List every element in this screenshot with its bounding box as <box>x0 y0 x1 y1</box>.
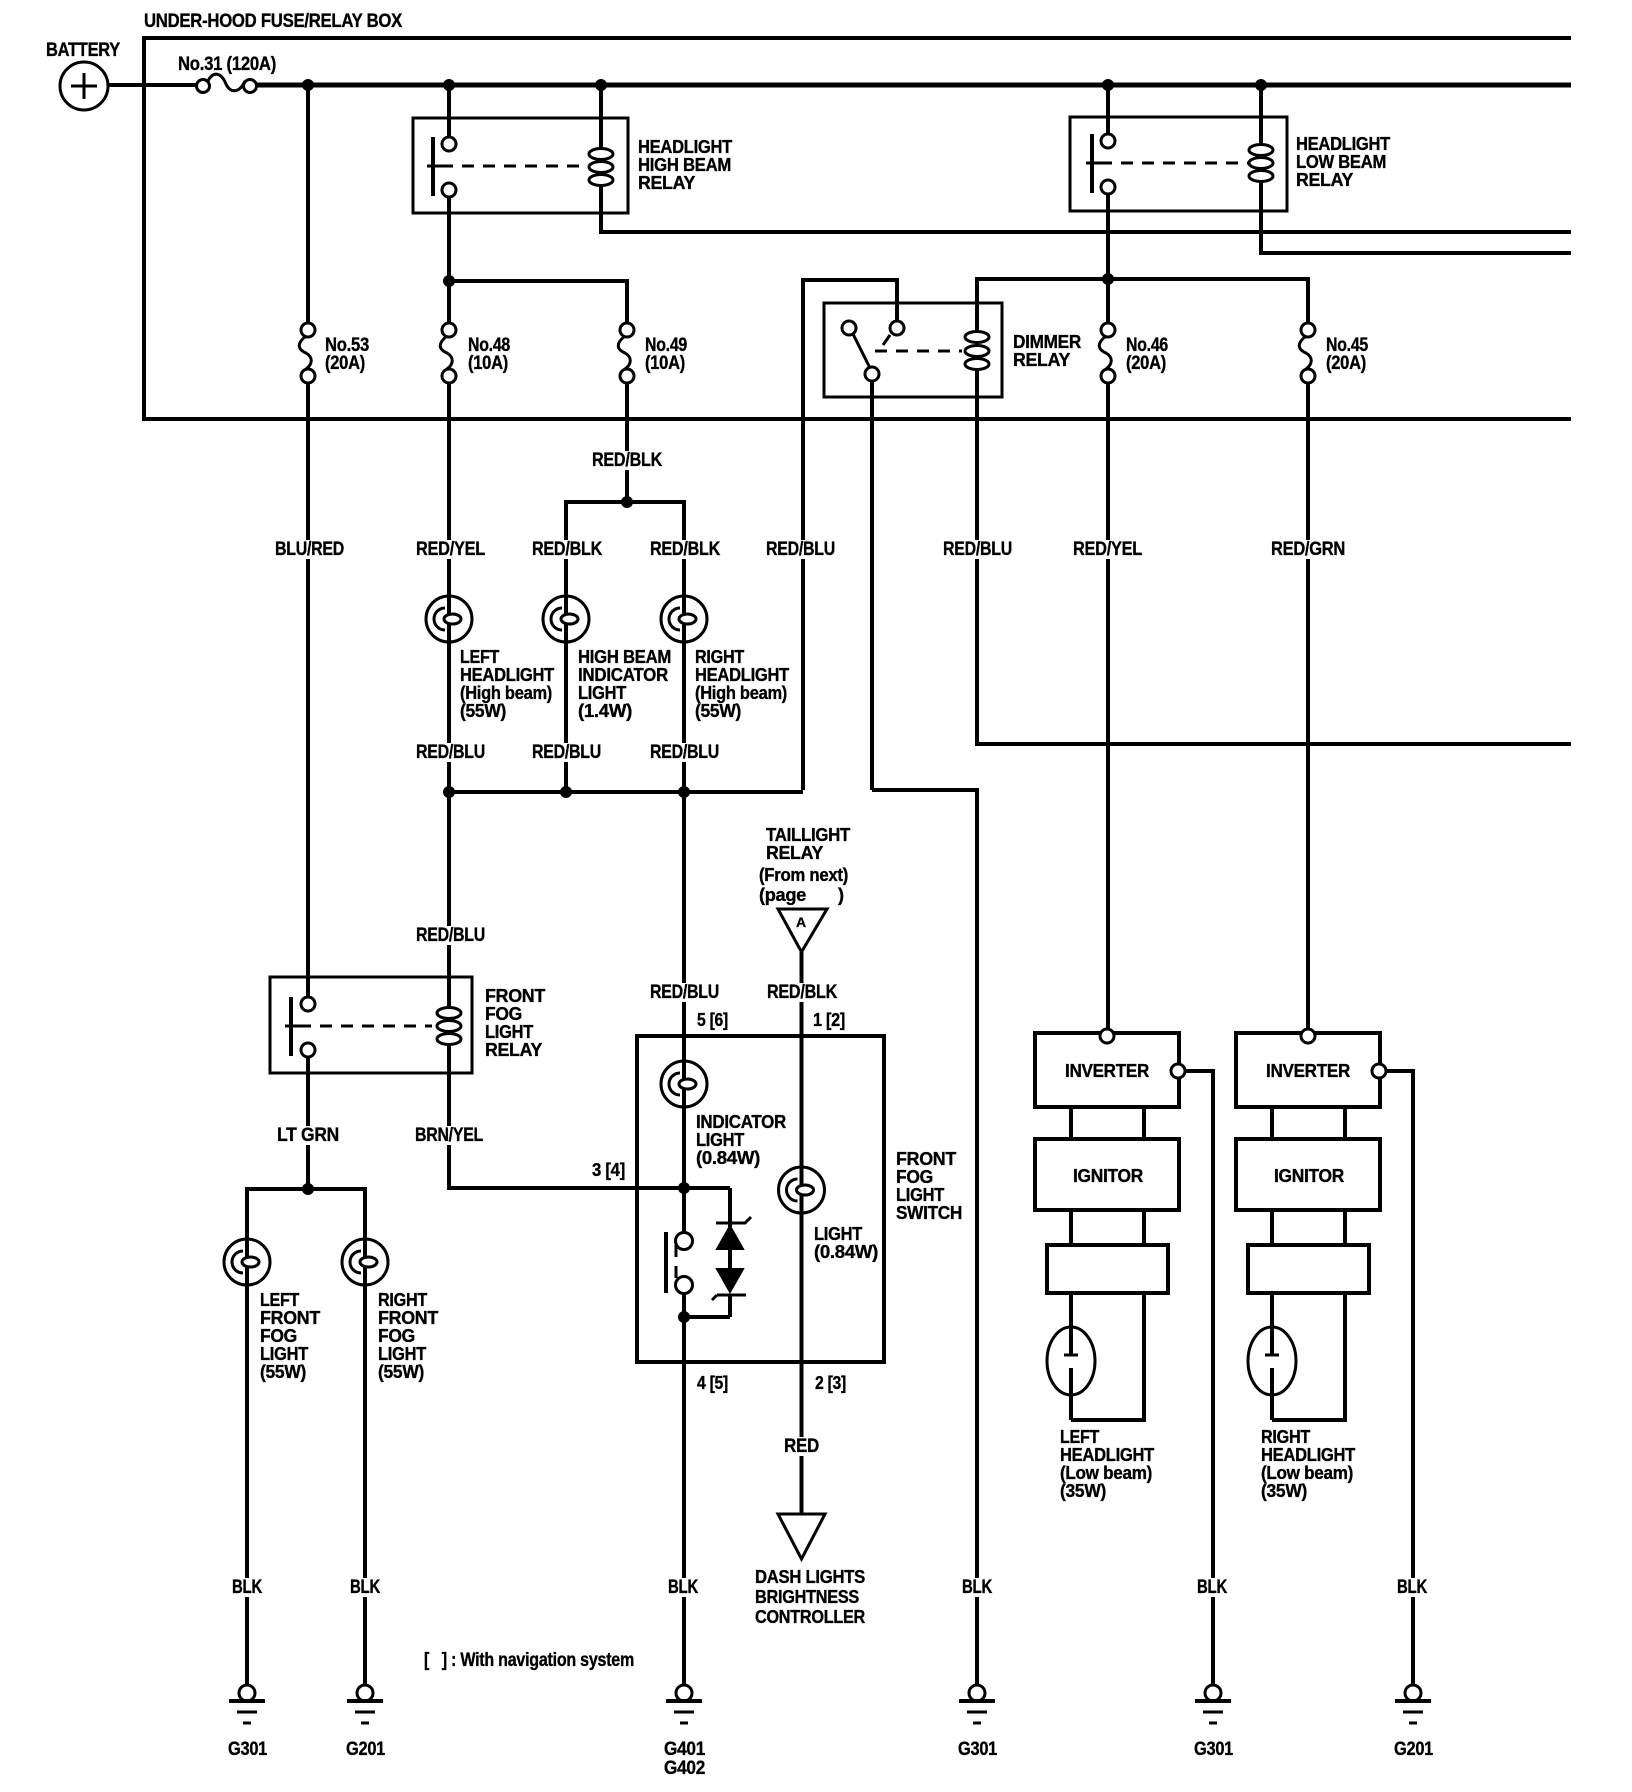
junction indicator to switch node <box>678 1182 690 1194</box>
low beam relay switch bar <box>1090 134 1094 193</box>
svg-text:FRONT: FRONT <box>260 1308 320 1328</box>
lamp right headlight low beam <box>1248 1327 1296 1420</box>
label HEADLIGHT LOW BEAM RELAY <box>1296 134 1390 190</box>
diode D1 (pointing up) <box>717 1226 743 1249</box>
svg-text:DIMMER: DIMMER <box>1013 332 1081 352</box>
svg-text:HEADLIGHT: HEADLIGHT <box>638 137 732 157</box>
label DASH LIGHTS BRIGHTNESS CONTROLLER <box>755 1567 865 1627</box>
wire triangle A to fog switch pin 1 <box>800 952 804 1036</box>
socket block left headlight <box>1047 1245 1168 1293</box>
svg-text:FOG: FOG <box>896 1167 933 1187</box>
label BRN/YEL at 415,1141 <box>413 1126 486 1145</box>
svg-text:RED/BLU: RED/BLU <box>416 925 485 946</box>
svg-text:(10A): (10A) <box>645 353 685 374</box>
svg-text:G402: G402 <box>664 1758 705 1779</box>
fuse No.53 (20A) <box>299 323 369 383</box>
svg-text:G301: G301 <box>1194 1739 1234 1760</box>
svg-text:FOG: FOG <box>378 1326 415 1346</box>
wire fog relay coil return <box>449 1044 730 1188</box>
front fog light switch box <box>637 1036 884 1362</box>
label HIGH BEAM INDICATOR LIGHT (1.4W) <box>578 647 671 721</box>
ground G201 right fog <box>346 1685 386 1760</box>
svg-text:): ) <box>838 885 844 905</box>
svg-text:4 [5]: 4 [5] <box>697 1373 728 1393</box>
wire dimmer common down <box>870 381 874 790</box>
svg-text:RED/BLU: RED/BLU <box>650 982 719 1003</box>
svg-text:(55W): (55W) <box>695 701 741 721</box>
wire ignitor U4 to socket right <box>1343 1210 1347 1245</box>
svg-text:HIGH BEAM: HIGH BEAM <box>638 155 731 175</box>
wire inverter U3 to ignitor left <box>1270 1107 1274 1139</box>
svg-text:(1.4W): (1.4W) <box>578 701 632 721</box>
svg-text:HIGH BEAM: HIGH BEAM <box>578 647 671 667</box>
svg-text:FRONT: FRONT <box>485 986 545 1006</box>
svg-text:(0.84W): (0.84W) <box>814 1242 878 1262</box>
label RED/YEL at 1073,555 <box>1071 540 1145 559</box>
svg-text:LIGHT: LIGHT <box>696 1130 744 1150</box>
svg-text:(35W): (35W) <box>1060 1481 1106 1501</box>
wire ignitor U2 to socket right <box>1142 1210 1146 1245</box>
ground G301 dimmer <box>958 1685 998 1760</box>
wire fuse No.48 to left headlight bulb <box>447 383 451 613</box>
svg-text:RED: RED <box>784 1436 819 1457</box>
svg-text:LEFT: LEFT <box>1060 1427 1099 1447</box>
junction return bus left <box>443 786 455 798</box>
junction fog light split <box>302 1183 314 1195</box>
dimmer relay contact pin A <box>842 321 856 335</box>
svg-text:(55W): (55W) <box>260 1362 306 1382</box>
dimmer relay contact pin B <box>890 321 904 335</box>
svg-text:LIGHT: LIGHT <box>378 1344 426 1364</box>
inverter U3 box <box>1236 1033 1380 1107</box>
svg-text:RIGHT: RIGHT <box>378 1290 427 1310</box>
connector triangle A from next page <box>778 909 827 952</box>
wire inverter U3 to ignitor right <box>1343 1107 1347 1139</box>
svg-text:(Low beam): (Low beam) <box>1261 1463 1353 1483</box>
svg-text:(55W): (55W) <box>378 1362 424 1382</box>
dimmer relay switch blade <box>853 334 870 368</box>
svg-text:BRN/YEL: BRN/YEL <box>415 1125 484 1146</box>
svg-text:LEFT: LEFT <box>460 647 499 667</box>
diode D2 (pointing down) <box>717 1269 743 1292</box>
junction switch output node <box>678 1311 690 1323</box>
junction on bus at high beam relay switch <box>443 79 455 91</box>
low beam relay hinge tick <box>1086 162 1101 165</box>
wire branch to fuse No.49 <box>449 281 627 323</box>
wire return bus to fog switch pin 5 <box>682 792 686 1065</box>
svg-text:HEADLIGHT: HEADLIGHT <box>1060 1445 1154 1465</box>
bulb right headlight high beam <box>661 596 707 642</box>
label LEFT HEADLIGHT (High beam) (55W) <box>460 647 554 721</box>
main power bus wire <box>256 83 1571 88</box>
svg-text:1 [2]: 1 [2] <box>813 1010 845 1030</box>
svg-text:(35W): (35W) <box>1261 1481 1307 1501</box>
svg-text:BLK: BLK <box>1197 1577 1227 1598</box>
label FRONT FOG LIGHT SWITCH <box>896 1149 962 1223</box>
dimmer relay blade tick <box>883 335 890 345</box>
label RED/BLU at 416,758 <box>414 743 488 762</box>
diode D1 cathode bar <box>716 1217 751 1223</box>
svg-text:RIGHT: RIGHT <box>1261 1427 1310 1447</box>
wire socket to right low beam lamp <box>1270 1293 1274 1355</box>
svg-text:FRONT: FRONT <box>378 1308 438 1328</box>
low beam relay coil <box>1249 145 1273 182</box>
battery B1 <box>46 40 121 110</box>
label RIGHT HEADLIGHT (High beam) (55W) <box>695 647 789 721</box>
wire label layer <box>230 450 1430 1598</box>
junction on bus at high beam relay coil <box>595 79 607 91</box>
inverter U3 right pin <box>1372 1064 1386 1078</box>
fuse No.46 (20A) <box>1099 323 1168 383</box>
svg-text:HEADLIGHT: HEADLIGHT <box>460 665 554 685</box>
wire bus to low beam relay coil <box>1259 85 1263 146</box>
wire bus to high beam relay switch pin <box>447 85 451 137</box>
return bus RED/BLU <box>449 790 803 794</box>
low beam relay actuation dashed link <box>1100 162 1248 165</box>
svg-text:TAILLIGHT: TAILLIGHT <box>766 825 850 845</box>
fog relay switch bar <box>289 997 293 1056</box>
wire bus to high beam relay coil <box>599 85 603 150</box>
label BLK at 232,1593 <box>230 1578 265 1597</box>
wire feed node to dimmer coil and fuse No.45 <box>977 279 1308 333</box>
svg-text:(20A): (20A) <box>325 353 365 374</box>
svg-text:RELAY: RELAY <box>638 173 695 193</box>
wire low beam relay coil return to next page <box>1261 182 1571 253</box>
ignitor U2 box <box>1035 1139 1179 1210</box>
wire inverter U1 to ground column <box>1185 1071 1213 1685</box>
svg-text:(10A): (10A) <box>468 353 508 374</box>
diode branch wire bottom <box>728 1295 732 1317</box>
socket block right headlight <box>1248 1245 1369 1293</box>
high beam relay actuation dashed link <box>441 165 588 168</box>
label RED/BLU at 650,998 <box>648 983 722 1002</box>
svg-text:3 [4]: 3 [4] <box>592 1160 625 1180</box>
fog relay coil <box>437 1008 461 1045</box>
fog switch actuation dashes <box>675 1245 678 1284</box>
wire inverter U3 to ground column <box>1386 1071 1413 1685</box>
label RIGHT FRONT FOG LIGHT (55W) <box>378 1290 438 1382</box>
label HEADLIGHT HIGH BEAM RELAY <box>638 137 732 193</box>
wire switch node down <box>682 1188 686 1232</box>
wire return bus down to fog relay coil <box>447 792 451 1008</box>
wire high beam relay switch output down <box>447 197 451 323</box>
wire split bracket <box>566 502 684 613</box>
low beam relay switch pin 2 <box>1101 180 1115 194</box>
label BLU/RED at 275,555 <box>273 540 347 559</box>
svg-text:RED/GRN: RED/GRN <box>1271 539 1345 560</box>
dimmer relay coil <box>965 332 989 370</box>
svg-text:SWITCH: SWITCH <box>896 1203 962 1223</box>
junction low beam output feed node <box>1102 273 1114 285</box>
wire left fog light to ground <box>245 1285 249 1685</box>
svg-text:BRIGHTNESS: BRIGHTNESS <box>755 1587 859 1607</box>
svg-text:RELAY: RELAY <box>766 843 823 863</box>
wire ignitor U4 to socket left <box>1270 1210 1274 1245</box>
svg-text:LIGHT: LIGHT <box>485 1022 533 1042</box>
wire dimmer switch feed C-loop <box>803 280 897 790</box>
svg-text:LT GRN: LT GRN <box>277 1125 339 1146</box>
fog switch bar <box>664 1232 668 1293</box>
diode shaft <box>728 1249 732 1269</box>
svg-text:DASH LIGHTS: DASH LIGHTS <box>755 1567 865 1587</box>
label BLK at 1397,1593 <box>1395 1578 1430 1597</box>
svg-text:RED/BLK: RED/BLK <box>592 450 662 471</box>
inverter U1 box <box>1035 1033 1179 1107</box>
label RED/BLK at 532,555 <box>530 540 605 559</box>
label RED/BLK at 592,466 <box>590 451 665 470</box>
junction split node <box>621 496 633 508</box>
wire diode branch merge <box>684 1315 730 1319</box>
high beam relay switch pin 1 <box>442 137 456 151</box>
svg-text:(20A): (20A) <box>1126 353 1166 374</box>
fuse No.45 (20A) <box>1299 323 1368 383</box>
svg-text:BLK: BLK <box>350 1577 380 1598</box>
wire ignitor U2 to socket left <box>1069 1210 1073 1245</box>
fog switch contact lower <box>676 1277 693 1294</box>
svg-text:RED/BLU: RED/BLU <box>532 742 601 763</box>
fog relay switch pin 2 <box>301 1043 315 1057</box>
wire right lamp return loop <box>1272 1293 1345 1420</box>
fog relay switch pin 1 <box>301 997 315 1011</box>
svg-text:RELAY: RELAY <box>1296 170 1353 190</box>
junction high beam output to fuse No.49 branch <box>443 275 455 287</box>
high beam relay hinge tick <box>427 165 442 168</box>
dimmer relay common pin C <box>865 367 879 381</box>
label LT GRN at 277,1141 <box>275 1126 342 1145</box>
svg-text:RED/BLU: RED/BLU <box>766 539 835 560</box>
headlight low beam relay box <box>1070 117 1287 211</box>
wire fuse No.49 to split node <box>625 383 629 502</box>
wire fog switch pin 2 to dash controller <box>800 1362 804 1513</box>
wire battery to fuse No.31 <box>108 83 197 87</box>
svg-text:BLK: BLK <box>668 1577 698 1598</box>
svg-text:RELAY: RELAY <box>485 1040 542 1060</box>
label RED/BLU at 416,941 <box>414 926 488 945</box>
svg-text:HEADLIGHT: HEADLIGHT <box>695 665 789 685</box>
svg-text:LOW BEAM: LOW BEAM <box>1296 152 1386 172</box>
wire bus to low beam relay switch pin <box>1106 85 1110 134</box>
headlight high beam relay box <box>413 118 628 213</box>
wire right headlight bulb to return bus <box>682 642 686 792</box>
label RED at 784,1452 <box>782 1437 822 1456</box>
svg-text:LIGHT: LIGHT <box>260 1344 308 1364</box>
bulb high beam indicator <box>543 596 589 642</box>
junction on bus at low beam relay switch <box>1102 79 1114 91</box>
svg-text:(page: (page <box>759 885 806 905</box>
diode D2 cathode bar <box>712 1295 746 1300</box>
wire dimmer common jog to ground column <box>872 790 977 1685</box>
svg-text:G301: G301 <box>228 1739 268 1760</box>
label RED/BLU at 532,758 <box>530 743 604 762</box>
wire fog relay switch output down <box>306 1057 310 1189</box>
wire fuse No.46 to left inverter <box>1106 383 1110 1029</box>
svg-text:RIGHT: RIGHT <box>695 647 744 667</box>
wire right fog light to ground <box>363 1285 367 1685</box>
wire inverter U1 to ignitor left <box>1069 1107 1073 1139</box>
bulb fog switch illumination light <box>779 1036 825 1362</box>
label BLK at 350,1593 <box>348 1578 383 1597</box>
svg-text:RELAY: RELAY <box>1013 350 1070 370</box>
triangle to dash lights brightness controller <box>778 1514 825 1559</box>
wire fog switch pin 4 to ground <box>682 1317 686 1685</box>
svg-text:A: A <box>796 914 806 930</box>
junction on bus at low beam relay coil <box>1255 79 1267 91</box>
dimmer relay actuation dashed link <box>875 350 962 353</box>
fog switch contact upper <box>676 1233 693 1250</box>
junction on bus at fuse No.53 <box>302 79 314 91</box>
ground G301 left inverter <box>1194 1685 1234 1760</box>
label TAILLIGHT RELAY (From next page) <box>759 825 850 905</box>
bulb right front fog light <box>342 1239 388 1285</box>
svg-text:RED/BLK: RED/BLK <box>532 539 602 560</box>
label LEFT HEADLIGHT (Low beam) (35W) <box>1060 1427 1154 1501</box>
fuse No.31 (120A) fusible link <box>178 54 276 93</box>
bulb left headlight high beam <box>426 596 472 642</box>
label RED/BLU at 650,758 <box>648 743 722 762</box>
ground G401 G402 fog switch <box>664 1685 706 1779</box>
svg-text:BLK: BLK <box>962 1577 992 1598</box>
junction return bus middle <box>560 786 572 798</box>
svg-text:INDICATOR: INDICATOR <box>578 665 668 685</box>
svg-text:(High beam): (High beam) <box>460 683 552 703</box>
inverter U1 right pin <box>1171 1064 1185 1078</box>
label RED/YEL at 416,555 <box>414 540 488 559</box>
svg-text:RED/BLU: RED/BLU <box>416 742 485 763</box>
label BLK at 668,1593 <box>666 1578 701 1597</box>
wire dimmer coil return RED/BLU to next page <box>977 369 1571 744</box>
fog relay actuation dashed link <box>299 1025 432 1028</box>
high beam relay coil <box>589 149 613 186</box>
wire switch lower contact to out node <box>682 1294 686 1317</box>
label INDICATOR LIGHT (0.84W) <box>696 1112 786 1168</box>
wire indicator bulb to return bus <box>564 642 568 792</box>
label RED/BLK at 767,998 <box>765 983 840 1002</box>
svg-text:G301: G301 <box>958 1739 998 1760</box>
svg-text:BATTERY: BATTERY <box>46 40 121 61</box>
svg-text:HEADLIGHT: HEADLIGHT <box>1261 1445 1355 1465</box>
wire inverter U1 to ignitor right <box>1142 1107 1146 1139</box>
label RIGHT HEADLIGHT (Low beam) (35W) <box>1261 1427 1355 1501</box>
svg-text:(From next): (From next) <box>759 865 848 885</box>
label RED/GRN at 1271,555 <box>1269 540 1348 559</box>
wire left lamp return loop <box>1071 1293 1144 1420</box>
diode pair branch wire top <box>728 1188 732 1227</box>
label RED/BLU at 943,555 <box>941 540 1015 559</box>
svg-text:5 [6]: 5 [6] <box>697 1010 728 1030</box>
svg-text:[ ] : With navigation system: [ ] : With navigation system <box>424 1650 634 1671</box>
front fog light relay box <box>270 977 472 1073</box>
wire fuse No.53 to fog relay <box>306 383 310 997</box>
ignitor U4 box <box>1236 1139 1380 1210</box>
svg-text:LEFT: LEFT <box>260 1290 299 1310</box>
svg-text:RED/BLK: RED/BLK <box>767 982 837 1003</box>
label BLK at 962,1593 <box>960 1578 995 1597</box>
svg-text:INVERTER: INVERTER <box>1065 1061 1149 1081</box>
svg-text:(0.84W): (0.84W) <box>696 1148 760 1168</box>
junction return bus right <box>678 786 690 798</box>
svg-text:BLK: BLK <box>232 1577 262 1598</box>
wire fuse No.45 to right inverter <box>1306 383 1310 1029</box>
svg-text:IGNITOR: IGNITOR <box>1073 1166 1143 1186</box>
svg-text:INDICATOR: INDICATOR <box>696 1112 786 1132</box>
svg-text:RED/YEL: RED/YEL <box>1073 539 1143 560</box>
ground G301 left fog <box>228 1685 268 1760</box>
label LEFT FRONT FOG LIGHT (55W) <box>260 1290 320 1382</box>
label RED/BLU at 766,555 <box>764 540 838 559</box>
label BLK at 1197,1593 <box>1195 1578 1230 1597</box>
svg-text:2 [3]: 2 [3] <box>815 1373 846 1393</box>
low beam relay switch pin 1 <box>1101 134 1115 148</box>
svg-text:LIGHT: LIGHT <box>814 1224 862 1244</box>
svg-text:(55W): (55W) <box>460 701 506 721</box>
ground G201 right inverter <box>1394 1685 1434 1760</box>
svg-text:RED/BLU: RED/BLU <box>943 539 1012 560</box>
wire left headlight bulb to return bus <box>447 642 451 792</box>
svg-text:INVERTER: INVERTER <box>1266 1061 1350 1081</box>
under-hood fuse/relay box frame <box>144 38 1571 419</box>
svg-text:RED/YEL: RED/YEL <box>416 539 486 560</box>
svg-text:FOG: FOG <box>485 1004 522 1024</box>
dimmer relay box <box>824 303 1002 397</box>
wire socket to left low beam lamp <box>1069 1293 1073 1355</box>
lamp left headlight low beam <box>1047 1327 1095 1420</box>
fuse No.49 (10A) <box>618 323 687 383</box>
svg-text:BLU/RED: BLU/RED <box>275 539 344 560</box>
svg-text:RED/BLU: RED/BLU <box>650 742 719 763</box>
svg-text:FRONT: FRONT <box>896 1149 956 1169</box>
svg-text:G201: G201 <box>346 1739 386 1760</box>
svg-text:UNDER-HOOD FUSE/RELAY BOX: UNDER-HOOD FUSE/RELAY BOX <box>144 11 403 32</box>
fog relay hinge tick <box>285 1025 300 1028</box>
label FRONT FOG LIGHT RELAY <box>485 986 545 1060</box>
fuse No.48 (10A) <box>440 323 510 383</box>
wire bus to fuse No.53 <box>306 85 310 323</box>
svg-text:G201: G201 <box>1394 1739 1434 1760</box>
svg-text:(Low beam): (Low beam) <box>1060 1463 1152 1483</box>
svg-text:LIGHT: LIGHT <box>896 1185 944 1205</box>
svg-text:G401: G401 <box>664 1739 706 1760</box>
svg-text:FOG: FOG <box>260 1326 297 1346</box>
svg-text:RED/BLK: RED/BLK <box>650 539 720 560</box>
high beam relay switch bar <box>431 137 435 196</box>
bulb fog switch indicator light <box>661 1061 707 1188</box>
svg-text:(20A): (20A) <box>1326 353 1366 374</box>
wire high beam relay coil return to next page <box>601 185 1571 232</box>
label DIMMER RELAY <box>1013 332 1081 370</box>
inverter U3 top pin <box>1301 1029 1315 1043</box>
svg-text:LIGHT: LIGHT <box>578 683 626 703</box>
svg-text:CONTROLLER: CONTROLLER <box>755 1607 865 1627</box>
svg-text:(High beam): (High beam) <box>695 683 787 703</box>
high beam relay switch pin 2 <box>442 183 456 197</box>
wire fog light split bracket <box>247 1189 365 1239</box>
label RED/BLK at 650,555 <box>648 540 723 559</box>
svg-text:HEADLIGHT: HEADLIGHT <box>1296 134 1390 154</box>
label LIGHT (0.84W) <box>814 1224 878 1262</box>
bulb left front fog light <box>224 1239 270 1285</box>
svg-text:No.31 (120A): No.31 (120A) <box>178 54 276 75</box>
svg-text:BLK: BLK <box>1397 1577 1427 1598</box>
svg-text:IGNITOR: IGNITOR <box>1274 1166 1344 1186</box>
wire low beam relay switch output down to junction <box>1106 194 1110 323</box>
inverter U1 top pin <box>1100 1029 1114 1043</box>
